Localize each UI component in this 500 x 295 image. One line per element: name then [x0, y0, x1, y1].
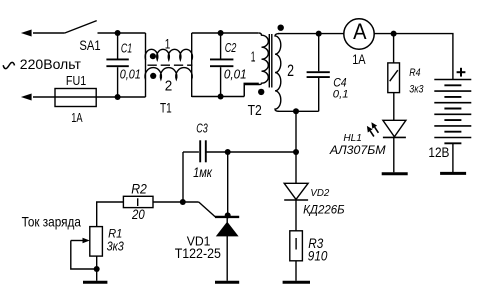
ammeter PA1 — [344, 19, 374, 49]
terminal bar R1 — [83, 281, 107, 284]
wire: ammeter to battery top — [374, 34, 453, 80]
svg-text:0,1: 0,1 — [333, 89, 349, 101]
svg-text:1: 1 — [165, 37, 171, 52]
svg-text:VD2: VD2 — [310, 188, 329, 199]
capacitor C2 — [210, 33, 233, 97]
switch SA1 blade — [65, 21, 97, 33]
svg-text:0,01: 0,01 — [120, 66, 141, 81]
wiper arrowhead R1 — [83, 238, 90, 244]
LED emission arrow 2 — [367, 126, 374, 137]
terminal bar battery — [440, 172, 466, 175]
svg-text:Т122-25: Т122-25 — [175, 246, 221, 261]
svg-text:3к3: 3к3 — [107, 238, 124, 253]
resistor R3 — [290, 231, 303, 261]
svg-text:3к3: 3к3 — [409, 83, 424, 95]
svg-text:20: 20 — [131, 207, 145, 222]
resistor R4 — [388, 63, 400, 93]
svg-text:T1: T1 — [160, 100, 172, 116]
node dot C2 bottom — [218, 94, 224, 100]
wire: T1 bottom right to C2 node — [192, 96, 245, 98]
wire: T2 secondary top to ammeter — [278, 33, 344, 35]
LED HL1 — [383, 120, 406, 137]
node dot VD1 cathode junction — [225, 212, 231, 218]
wire: R4 to LED — [393, 93, 395, 121]
svg-text:1мк: 1мк — [193, 165, 212, 180]
node dot C3 to VD2 junction — [293, 149, 299, 155]
arrowhead top input — [21, 30, 32, 37]
diode VD2 — [284, 183, 308, 200]
capacitor C4 — [307, 34, 330, 112]
svg-text:T2: T2 — [248, 103, 262, 119]
terminal bar R3 — [283, 281, 310, 284]
potentiometer R1 — [71, 227, 103, 257]
wire: top rail from input arrow to switch pivot — [33, 32, 65, 34]
svg-text:C1: C1 — [121, 40, 132, 55]
wire: switch fixed contact to C1 node to T1 top left — [98, 32, 146, 34]
svg-text:R4: R4 — [409, 67, 420, 79]
wire: VD1 anode to terminal — [226, 217, 228, 281]
phasing dot T2 secondary — [278, 25, 284, 31]
capacitor C3 — [183, 140, 228, 162]
svg-text:1A: 1A — [352, 52, 366, 67]
battery GB1 — [434, 80, 471, 144]
node dot C3 right — [225, 149, 231, 155]
wire: wiper loop to bottom — [71, 241, 97, 270]
svg-text:C2: C2 — [225, 40, 237, 55]
wire: C3 left lead down to gate node — [182, 152, 184, 202]
resistor R2 — [123, 196, 153, 207]
LED emission arrow 1 — [371, 122, 378, 133]
node dot gate junction — [180, 199, 186, 205]
wire: step up to T2 primary bottom — [244, 83, 259, 96]
svg-text:SA1: SA1 — [79, 38, 100, 53]
wire: T1 top right to C2 node to T2 primary top — [192, 32, 259, 34]
svg-text:A: A — [353, 19, 367, 44]
fuse FU1 — [55, 89, 96, 107]
svg-text:0,01: 0,01 — [224, 66, 247, 81]
wire: R3 bottom to terminal — [295, 261, 297, 281]
svg-text:220Вольт: 220Вольт — [20, 56, 82, 72]
label plus battery — [457, 68, 466, 77]
wire: R1 bottom to terminal — [96, 256, 98, 281]
wire: gate diagonal to VD1 — [199, 202, 216, 217]
svg-text:АЛ307БМ: АЛ307БМ — [329, 145, 386, 157]
svg-text:КД226Б: КД226Б — [303, 202, 345, 216]
arrowhead bottom input — [21, 94, 32, 101]
svg-text:1A: 1A — [71, 111, 83, 125]
wire: C3 right node to VD2 branch — [228, 151, 296, 153]
svg-text:Ток заряда: Ток заряда — [22, 214, 81, 230]
phasing dot T1 winding 2 — [150, 73, 156, 79]
svg-text:FU1: FU1 — [66, 73, 86, 88]
svg-text:910: 910 — [308, 248, 328, 263]
svg-text:2: 2 — [287, 61, 294, 80]
wire: R2 to gate junction — [153, 201, 199, 203]
svg-text:R2: R2 — [131, 182, 147, 197]
node dot C4 top — [316, 31, 322, 37]
node dot R1 bottom — [94, 266, 100, 272]
wire: T2 secondary bottom to C4 bottom — [278, 110, 319, 112]
node dot R4 top — [391, 31, 397, 37]
AC sine symbol — [3, 62, 14, 68]
capacitor C1 — [106, 33, 128, 97]
wire: R2 left to R1 top corner — [97, 202, 124, 227]
node dot C1 bottom — [115, 94, 121, 100]
terminal bar VD1 — [215, 281, 239, 284]
thyristor VD1 — [215, 217, 239, 237]
node dot C2 top — [218, 30, 224, 36]
wire: VD2 cathode to R3 — [295, 200, 297, 231]
svg-text:2: 2 — [165, 78, 173, 95]
wire: battery bottom to terminal — [452, 143, 454, 172]
terminal bar HL1 — [382, 172, 408, 175]
svg-text:12В: 12В — [428, 145, 449, 160]
svg-text:1: 1 — [251, 49, 256, 65]
wire: R4 top lead — [393, 34, 395, 63]
wire: LED cathode to terminal — [393, 137, 395, 172]
wire: C3 right down to VD1 cathode bar — [227, 152, 229, 217]
transformer T1 — [145, 33, 193, 97]
node dot VD2 top — [293, 108, 299, 114]
phasing dot T1 winding 1 — [150, 53, 156, 59]
wire: T2 bottom junction down to VD2 anode — [295, 111, 297, 183]
node dot C1 top — [115, 30, 121, 36]
transformer T2 — [244, 33, 281, 111]
wire: bottom rail from input arrow through fuse to T1 bottom left — [33, 96, 146, 98]
svg-text:C3: C3 — [196, 121, 208, 136]
phasing dot T2 primary — [258, 89, 264, 95]
svg-text:HL1: HL1 — [343, 133, 362, 144]
